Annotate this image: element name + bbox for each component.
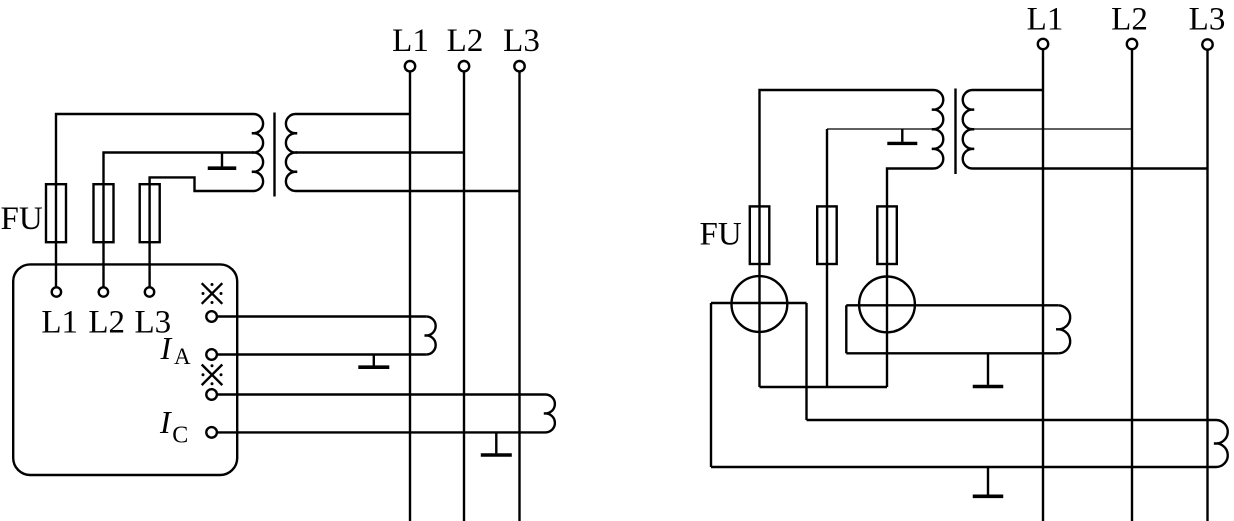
- svg-text:FU: FU: [700, 217, 742, 253]
- svg-text:L3: L3: [1189, 2, 1226, 38]
- svg-text:C: C: [172, 423, 188, 449]
- svg-text:I: I: [159, 404, 172, 440]
- svg-text:I: I: [160, 330, 173, 366]
- svg-text:A: A: [174, 344, 191, 369]
- svg-text:L1: L1: [41, 305, 78, 341]
- svg-text:L1: L1: [1027, 2, 1064, 38]
- svg-text:L2: L2: [88, 305, 125, 341]
- svg-text:L3: L3: [503, 23, 540, 59]
- svg-text:FU: FU: [1, 201, 43, 237]
- svg-text:L2: L2: [447, 23, 484, 59]
- svg-text:L2: L2: [1111, 2, 1148, 38]
- svg-text:L1: L1: [392, 23, 429, 59]
